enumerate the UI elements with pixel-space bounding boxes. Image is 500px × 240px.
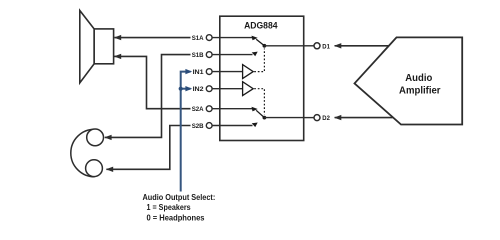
- wire IN2 to buffer: [212, 88, 243, 90]
- buffer U1b (IN2 driver): [243, 82, 254, 96]
- svg-text:Amplifier: Amplifier: [399, 86, 441, 97]
- switch SW1 pole line: [256, 39, 264, 46]
- wire box edge to D1 circle: [304, 45, 314, 47]
- svg-text:D1: D1: [322, 43, 330, 50]
- wire S2B to headphone bottom earpiece: [106, 126, 191, 173]
- speaker LS1: [80, 11, 114, 83]
- svg-text:1 = Speakers: 1 = Speakers: [147, 202, 191, 212]
- svg-text:ADG884: ADG884: [244, 20, 278, 31]
- svg-text:D2: D2: [322, 115, 330, 122]
- svg-text:IN1: IN1: [193, 69, 204, 76]
- svg-text:Audio Output Select:: Audio Output Select:: [143, 192, 216, 202]
- switch SW2 pole junction dot: [263, 116, 267, 120]
- svg-text:0 = Headphones: 0 = Headphones: [147, 212, 205, 222]
- dotted control line buffer2 to SW2: [254, 89, 264, 115]
- svg-text:S2A: S2A: [192, 106, 204, 113]
- svg-text:IN2: IN2: [193, 86, 204, 93]
- pin S2B terminal circle: [206, 123, 212, 129]
- wire S1A into box: [212, 37, 252, 39]
- wire D2 to audio amplifier: [334, 115, 393, 120]
- wire box edge to D2 circle: [304, 117, 314, 119]
- wire D2 inside box: [264, 117, 303, 119]
- dotted control line buffer1 to SW1: [254, 49, 264, 72]
- svg-text:S2B: S2B: [192, 123, 204, 130]
- label Audio Output Select legend: [143, 192, 216, 222]
- pin S1A terminal circle: [206, 35, 212, 41]
- pin S1B terminal circle: [206, 52, 212, 58]
- wire S1B to headphone top earpiece: [104, 55, 190, 141]
- wire S2B into box: [212, 125, 252, 127]
- pin D1 terminal circle: [314, 43, 320, 49]
- svg-text:S1A: S1A: [192, 35, 204, 42]
- pin IN1 terminal circle: [206, 69, 212, 75]
- blue control net: audio output select: [179, 69, 193, 192]
- wire D1 to audio amplifier: [334, 43, 389, 48]
- wire IN1 to buffer: [212, 71, 243, 73]
- wire D1 inside box: [264, 45, 303, 47]
- buffer U1a (IN1 driver): [243, 65, 254, 79]
- label Audio Amplifier: [399, 73, 441, 96]
- svg-text:Audio: Audio: [405, 73, 432, 84]
- switch SW1 throw contact S1B arrowhead: [252, 52, 258, 57]
- pin IN2 terminal circle: [206, 86, 212, 92]
- switch SW2 throw contact S2A arrowhead: [252, 107, 258, 112]
- pin S2A terminal circle: [206, 106, 212, 112]
- wire S1B into box: [212, 54, 252, 56]
- wire S2A to speaker bottom input: [114, 54, 191, 109]
- audio amplifier block A1: [355, 37, 463, 124]
- headphones HP1: [71, 129, 104, 177]
- switch SW2 pole line: [256, 110, 264, 117]
- pin D2 terminal circle: [314, 115, 320, 121]
- switch SW2 throw contact S2B arrowhead: [252, 123, 258, 128]
- wire S2A into box: [212, 108, 252, 110]
- svg-text:S1B: S1B: [192, 52, 204, 59]
- switch SW1 pole junction dot: [263, 44, 267, 48]
- wire S1A to speaker top input: [114, 35, 191, 40]
- IC U1 ADG884 box: [220, 16, 304, 140]
- switch SW1 throw contact S1A arrowhead: [252, 36, 258, 41]
